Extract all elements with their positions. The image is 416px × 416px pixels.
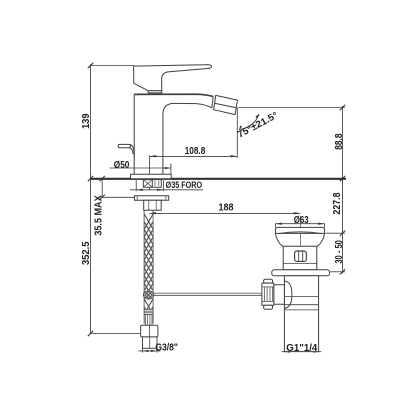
svg-text:G1"1/4: G1"1/4 xyxy=(286,343,317,354)
drain centerline xyxy=(299,216,301,348)
linkage rod to drain upper line xyxy=(154,292,262,294)
spout joint seam 2 xyxy=(214,96,215,109)
extension line hose bottom (352.5) xyxy=(91,333,141,335)
G1 1/4 dim line right stub xyxy=(316,351,321,353)
tick countertop level xyxy=(340,176,345,181)
tick at countertop on 139/352.5 line xyxy=(88,176,93,181)
ribbed nut body xyxy=(262,283,274,305)
window inner line left xyxy=(298,251,300,261)
threaded shank below deck xyxy=(143,180,161,188)
ribbed nut top cap xyxy=(264,279,273,283)
washer end cap right xyxy=(165,196,167,201)
arrow G3/8 right xyxy=(151,350,157,352)
tailpipe seam 2 xyxy=(284,304,318,306)
ribbed nut band top xyxy=(262,286,274,288)
O50 right extension stub xyxy=(170,164,172,175)
mounting flange xyxy=(131,174,172,178)
threaded end mid line xyxy=(149,337,151,348)
drain upper body xyxy=(283,246,317,270)
O35 leader-dimension line xyxy=(130,189,203,191)
hose left edge xyxy=(143,210,145,323)
body top edge xyxy=(134,94,213,96)
flexible hose xyxy=(141,210,262,348)
window inner line right xyxy=(302,251,304,261)
nut rib 4 xyxy=(271,287,273,301)
arrow arc bottom end xyxy=(239,126,242,131)
nut rib 1 xyxy=(263,287,265,301)
arrow G1 1/4 right xyxy=(313,351,319,353)
handle lever xyxy=(134,65,212,91)
svg-text:227.8: 227.8 xyxy=(332,192,343,214)
tailpipe seam 3 xyxy=(284,309,318,311)
linkage rod to drain lower line xyxy=(154,294,262,296)
washer xyxy=(134,196,168,201)
tick bottom of 35.5 xyxy=(100,195,105,200)
aerator body xyxy=(214,95,238,114)
svg-text:30 - 50: 30 - 50 xyxy=(334,240,345,264)
overflow window xyxy=(295,251,307,261)
right dimension column line xyxy=(342,106,344,274)
dimension arrowheads xyxy=(136,114,324,353)
svg-text:88.8: 88.8 xyxy=(334,133,345,150)
threaded end G3/8 xyxy=(143,337,158,348)
svg-text:139: 139 xyxy=(81,113,92,129)
mounting nut xyxy=(144,200,162,210)
hose right edge xyxy=(152,210,154,323)
arrow 108.8 left xyxy=(150,155,157,157)
washer end cap left xyxy=(136,196,138,201)
nut facet left xyxy=(148,200,150,210)
ribbed nut bottom cap xyxy=(264,305,273,309)
arrow O35 right xyxy=(157,189,164,191)
svg-text:352.5: 352.5 xyxy=(81,241,92,265)
extension line handle top xyxy=(91,65,134,67)
drain flange xyxy=(272,270,330,276)
arrow O63 left xyxy=(275,223,282,225)
svg-text:Ø50: Ø50 xyxy=(114,160,130,171)
svg-text:188: 188 xyxy=(219,203,234,214)
lip to body concave flare right xyxy=(317,233,325,246)
linkage ellipse on hose xyxy=(143,291,153,299)
drain top lip xyxy=(275,227,324,233)
O35 hole edge left xyxy=(135,180,137,191)
plug dome arc xyxy=(279,232,322,234)
pop-up rod knob neck inner xyxy=(130,148,135,154)
G3/8 dim line xyxy=(139,350,161,352)
svg-text:G3/8": G3/8" xyxy=(155,342,178,353)
body seam lower xyxy=(283,263,317,265)
arrow G1 1/4 left xyxy=(284,351,290,353)
arrow 188 left xyxy=(149,212,156,214)
G1 1/4 dim line left stub xyxy=(282,351,287,353)
extension O63 right xyxy=(324,224,326,228)
dimension 139 vertical line xyxy=(90,64,92,333)
arrow arc top end xyxy=(256,114,260,118)
svg-text:Ø35 FORO: Ø35 FORO xyxy=(166,180,203,191)
tick bottom of 352.5 xyxy=(88,331,93,336)
side inlet cylinder xyxy=(274,285,285,304)
collar rib 1 xyxy=(146,314,148,325)
spout joint seam 1 xyxy=(212,97,213,108)
svg-text:35.5 MAX: 35.5 MAX xyxy=(93,195,104,236)
tick aerator level xyxy=(340,105,345,110)
angle arc 75 xyxy=(239,114,259,129)
arrow O35 left xyxy=(136,189,143,191)
hose crimp bands xyxy=(144,310,153,315)
side inlet bulge xyxy=(284,281,292,309)
drain lower body / tailpipe xyxy=(284,276,318,352)
nut facet right xyxy=(155,200,157,210)
dimension O63 line xyxy=(275,223,324,225)
dimension 108.8 line xyxy=(150,155,238,157)
pop-up rod knob neck outer xyxy=(130,145,135,158)
arrow G3/8 left xyxy=(142,350,148,352)
extension line drain flange xyxy=(330,271,345,273)
nut rib 3 xyxy=(269,287,271,301)
extension faucet axis xyxy=(149,155,151,190)
hose nut facet xyxy=(148,325,150,337)
G3/8 extension right xyxy=(156,348,158,352)
extension line washer top xyxy=(102,196,134,198)
aerator mid line xyxy=(215,103,237,108)
arrow 188 right xyxy=(294,212,301,214)
tick drain lip level xyxy=(340,231,345,236)
hose end nut xyxy=(141,325,158,337)
nut rib 2 xyxy=(266,287,268,301)
O50 leader line xyxy=(110,167,171,169)
body inner curve xyxy=(163,103,212,174)
tick drain flange level xyxy=(340,269,345,274)
extension aerator tip vertical ray xyxy=(236,107,238,157)
pop-up rod knob bar xyxy=(118,144,130,147)
handle base washer xyxy=(148,91,162,93)
lip to body concave flare left xyxy=(275,233,283,246)
extension line drain lip xyxy=(326,232,346,234)
tailpipe seam 1 xyxy=(284,296,318,298)
dimension 35.5 MAX vertical line xyxy=(101,179,103,198)
svg-text:108.8: 108.8 xyxy=(185,145,206,157)
collar rib 2 xyxy=(149,314,151,325)
arrow O63 right xyxy=(318,223,325,225)
arrow O50 leader xyxy=(165,167,171,169)
dimension 188 line xyxy=(149,212,300,214)
arrow 108.8 right xyxy=(231,155,238,157)
hose braid pattern xyxy=(144,214,153,309)
G3/8 extension left xyxy=(141,348,143,352)
tick top of 139 xyxy=(88,63,93,68)
hose collar xyxy=(145,314,152,325)
extension O63 left xyxy=(274,224,276,228)
ribbed nut band bottom xyxy=(262,300,274,302)
O35 hole edge right xyxy=(163,180,165,191)
countertop line xyxy=(91,178,346,180)
svg-text:Ø63: Ø63 xyxy=(294,215,309,226)
extension line aerator height xyxy=(238,107,345,109)
tick top of 35.5 xyxy=(100,176,105,181)
body left edge xyxy=(133,94,135,174)
